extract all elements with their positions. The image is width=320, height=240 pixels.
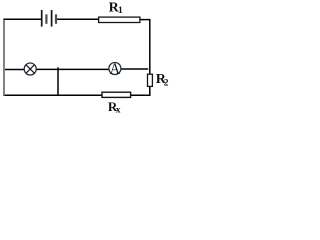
svg-text:A: A: [110, 61, 121, 78]
svg-text:1: 1: [118, 6, 123, 16]
svg-text:2: 2: [164, 79, 169, 89]
svg-text:x: x: [116, 106, 121, 116]
